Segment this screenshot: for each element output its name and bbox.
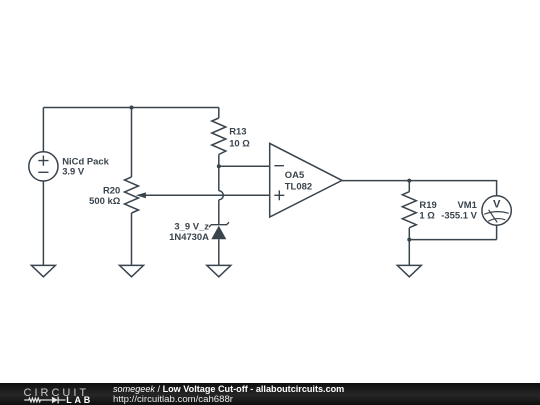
svg-text:OA5: OA5 <box>285 170 304 181</box>
wire pot top lead <box>131 108 133 178</box>
zener diode D1 <box>209 222 229 239</box>
svg-text:LAB: LAB <box>66 395 93 405</box>
svg-text:1N4730A: 1N4730A <box>169 232 209 243</box>
wire voltmeter return to R19 node <box>409 239 496 241</box>
ground under pot <box>120 265 144 276</box>
svg-text:R20: R20 <box>103 186 120 197</box>
label OA5 TL082 <box>285 170 312 193</box>
label R20 500 kOhm <box>89 186 121 208</box>
label V1 value NiCd Pack 3.9 V <box>62 157 109 178</box>
voltmeter VM1 body <box>482 196 511 225</box>
svg-text:V: V <box>493 198 501 210</box>
wire zener anode to ground <box>218 239 220 265</box>
logo diode <box>52 397 66 404</box>
ground under zener <box>207 265 231 276</box>
wire hop to zener cathode <box>218 200 220 225</box>
logo resistor zigzag <box>24 398 52 402</box>
wire hop over wiper wire <box>219 191 224 200</box>
svg-text:R13: R13 <box>229 126 246 137</box>
wire pot bottom to ground <box>131 213 133 265</box>
wire pot wiper to op-amp non-inverting input <box>144 194 270 196</box>
svg-text:VM1: VM1 <box>457 200 476 211</box>
footer credit text <box>113 384 344 405</box>
node junction R13/zener/op-amp <box>217 164 221 168</box>
svg-text:1 Ω: 1 Ω <box>419 211 435 222</box>
wire R13 bottom lead <box>218 155 220 167</box>
ground under R19 <box>397 265 421 276</box>
node junction output/R19 <box>407 179 411 183</box>
label R19 1 Ohm <box>419 200 436 222</box>
wire R19 node to ground <box>408 240 410 266</box>
wire R19 top lead <box>408 181 410 192</box>
resistor R13 <box>212 118 226 155</box>
wire output node to voltmeter top <box>409 181 496 196</box>
label VM1 -355.1 V <box>441 200 477 222</box>
svg-text:-355.1 V: -355.1 V <box>441 211 477 222</box>
svg-text:TL082: TL082 <box>285 182 312 193</box>
wire node down to hop <box>218 166 220 191</box>
label R13 10 Ohm <box>229 126 250 149</box>
svg-text:R19: R19 <box>419 200 436 211</box>
wire top rail <box>43 107 218 109</box>
wire voltmeter bottom <box>496 225 498 239</box>
footer bar <box>0 383 540 405</box>
wire to op-amp inverting input <box>219 165 270 167</box>
ground under battery <box>31 265 55 276</box>
wire battery bottom to ground <box>42 181 44 265</box>
voltage source V1 NiCd Pack body <box>29 152 58 181</box>
svg-text:3.9 V: 3.9 V <box>62 167 85 178</box>
wire R19 bottom lead <box>408 228 410 240</box>
node junction R19/voltmeter return <box>407 238 411 242</box>
op-amp OA5 triangle <box>270 143 342 217</box>
wire op-amp output <box>342 180 409 182</box>
op-amp inverting input symbol <box>274 165 284 167</box>
wire R13 top lead <box>218 108 220 119</box>
node junction rail/R20 <box>130 106 134 110</box>
svg-text:500 kΩ: 500 kΩ <box>89 196 121 207</box>
op-amp non-inverting input symbol <box>274 190 284 200</box>
resistor R19 <box>402 192 416 228</box>
svg-text:10 Ω: 10 Ω <box>229 138 250 149</box>
label D1 3_9 V_z 1N4730A <box>169 222 209 243</box>
CircuitLab logo <box>0 383 110 405</box>
potentiometer R20 <box>125 177 146 213</box>
wire battery top to top rail <box>42 108 44 152</box>
